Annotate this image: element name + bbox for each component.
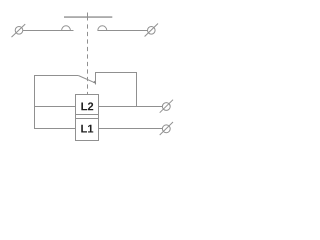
wire: bracket to L2 box — [34, 106, 76, 108]
wire: L2 box to terminal X3 — [99, 106, 163, 108]
mechanical link (dashed) — [87, 24, 89, 94]
wire: contact gap to right terminal — [98, 30, 148, 32]
crossover hump (right fixed contact) — [98, 26, 107, 31]
blade tip arrowhead — [93, 81, 96, 84]
label L1 — [81, 125, 93, 133]
crossover hump (left fixed contact) — [62, 26, 71, 31]
wire: bracket to L1 box — [34, 128, 76, 130]
terminal X1 (left, circle with slash) — [12, 24, 26, 37]
wire: switch output top run — [95, 72, 137, 74]
terminal X2 (top right, circle with slash) — [145, 24, 158, 37]
terminal X4 (right lower, circle with slash) — [160, 122, 173, 135]
actuator bar (rocker bridge) — [64, 16, 112, 18]
wire: L1 box to terminal X4 — [99, 128, 163, 130]
wire: left bracket vertical — [34, 75, 36, 129]
terminal X3 (right upper, circle with slash) — [160, 100, 173, 113]
wire: drop to L2 line — [136, 72, 138, 107]
label L2 — [81, 102, 93, 110]
wire: riser from blade tip — [95, 72, 97, 85]
wire: left terminal to contact gap — [23, 30, 74, 32]
box L2 (terminal block) — [76, 95, 99, 115]
connector walls between boxes — [76, 115, 99, 119]
box L1 (terminal block) — [76, 119, 99, 141]
wire: bracket to switch pivot — [34, 75, 78, 77]
switch blade S1 — [78, 76, 95, 84]
actuator tick — [87, 13, 89, 21]
